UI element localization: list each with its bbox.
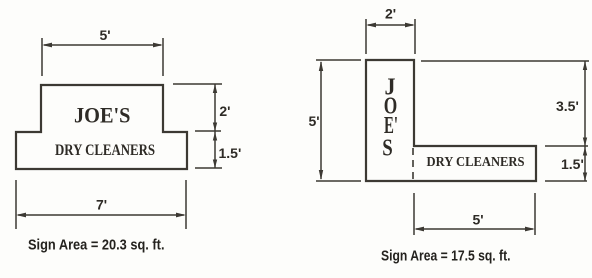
svg-text:3.5': 3.5': [556, 98, 579, 114]
svg-text:JOE'S: JOE'S: [74, 103, 131, 128]
svg-text:7': 7': [96, 197, 107, 213]
svg-text:DRY CLEANERS: DRY CLEANERS: [427, 154, 525, 169]
svg-text:2': 2': [219, 103, 230, 119]
svg-text:2': 2': [385, 6, 396, 22]
svg-text:1.5': 1.5': [561, 156, 584, 172]
svg-text:S: S: [382, 136, 393, 162]
svg-text:DRY CLEANERS: DRY CLEANERS: [55, 142, 155, 159]
svg-text:Sign Area = 17.5 sq. ft.: Sign Area = 17.5 sq. ft.: [381, 248, 511, 265]
svg-text:1.5': 1.5': [219, 145, 242, 161]
svg-text:5': 5': [473, 212, 484, 228]
svg-text:5': 5': [100, 27, 111, 43]
svg-text:5': 5': [309, 113, 320, 129]
svg-text:Sign Area = 20.3 sq. ft.: Sign Area = 20.3 sq. ft.: [28, 237, 165, 254]
